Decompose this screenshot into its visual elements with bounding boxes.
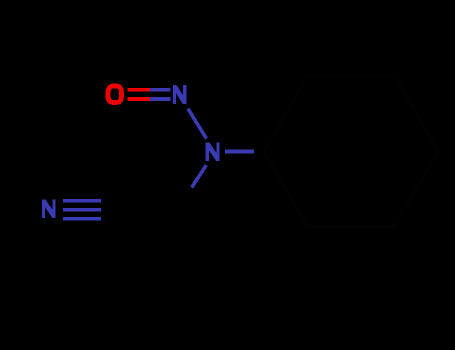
atom label N1 (nitroso nitrogen), blue [173, 85, 186, 104]
bond N2-C(ring) blue half [225, 150, 254, 154]
benzene ring (carbon hexagon, near-black) [264, 76, 438, 227]
double bond O=N blue halves [150, 90, 171, 99]
atom label N2 (amine nitrogen), blue [206, 142, 220, 161]
bond CH2-C(nitrile) carbon-carbon [110, 208, 177, 211]
atom label O (nitroso oxygen), red [108, 86, 121, 102]
double bond O=N red halves [128, 90, 151, 99]
atom label N3 (nitrile nitrogen), blue [42, 200, 56, 218]
bond C(ring)-N2 dark half [254, 150, 264, 153]
bond N1-N2 [188, 109, 207, 139]
triple bond C#N lines [63, 201, 101, 219]
bond CH2-N2 dark half [177, 187, 192, 210]
bond N2-CH2 blue half [192, 165, 207, 187]
